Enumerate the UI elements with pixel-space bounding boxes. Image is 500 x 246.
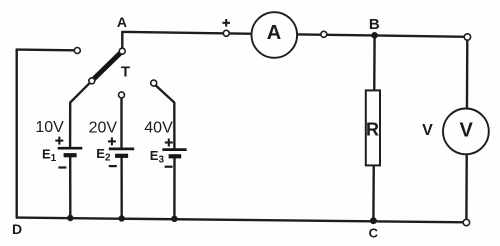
svg-text:10V: 10V [35,119,64,136]
polarity plus top [222,19,230,27]
terminal E2 contact [119,92,125,98]
svg-text:B: B [369,16,380,33]
ammeter U-A [251,12,297,58]
polarity plus E3 [165,139,173,147]
voltmeter U-V [443,108,489,154]
polarity minus E2 [109,165,117,167]
wire battery E3 to bottom rail [173,156,176,219]
svg-text:40V: 40V [144,120,173,137]
terminal switch pivot [119,48,125,54]
polarity plus E2 [108,137,116,145]
terminal bottom-right corner [463,219,469,225]
junction dot E2 bottom [119,215,125,221]
polarity minus E3 [165,166,173,168]
wire E3 contact to battery E3 branch [156,85,175,149]
wire B vertical through resistor R [373,35,374,220]
wire bottom rail D to C to right corner [17,218,467,223]
node C junction dot [370,217,377,224]
wire top rail A to top-right corner [122,32,467,37]
junction dot E1 bottom [67,215,73,221]
terminal ammeter right [321,31,327,37]
svg-text:A: A [267,22,281,44]
junction dot E3 bottom [171,216,177,222]
battery E1 [58,148,83,155]
switch T blade [92,51,122,81]
battery E2 [109,149,134,156]
wire switch arm contact to battery E1 branch [70,81,91,148]
wire E2 contact to battery E2 [120,98,122,149]
svg-text:V: V [460,119,474,141]
terminal open contact left [74,48,80,54]
svg-text:20V: 20V [89,120,118,137]
wire battery E2 to bottom rail [120,156,122,219]
svg-text:D: D [12,221,22,237]
wire right vertical through voltmeter [465,37,468,222]
wire battery E1 to bottom rail [69,155,72,218]
svg-text:T: T [121,63,130,80]
polarity plus E1 [55,137,63,145]
terminal E3 contact [151,80,157,86]
battery E3 [162,150,186,157]
node B junction dot [371,32,378,39]
svg-text:C: C [369,226,379,241]
svg-text:V: V [422,122,433,139]
terminal top-right corner [464,34,470,40]
polarity minus E1 [58,166,66,168]
terminal plus ammeter left [223,30,229,36]
terminal switch blade end [89,78,95,84]
wire left horizontal to open contact [17,48,75,51]
resistor R [366,90,380,165]
wire left vertical D-to-switch [16,50,18,218]
svg-text:A: A [117,14,127,30]
wire node A drop to switch pivot [121,32,123,49]
svg-text:R: R [366,120,379,140]
